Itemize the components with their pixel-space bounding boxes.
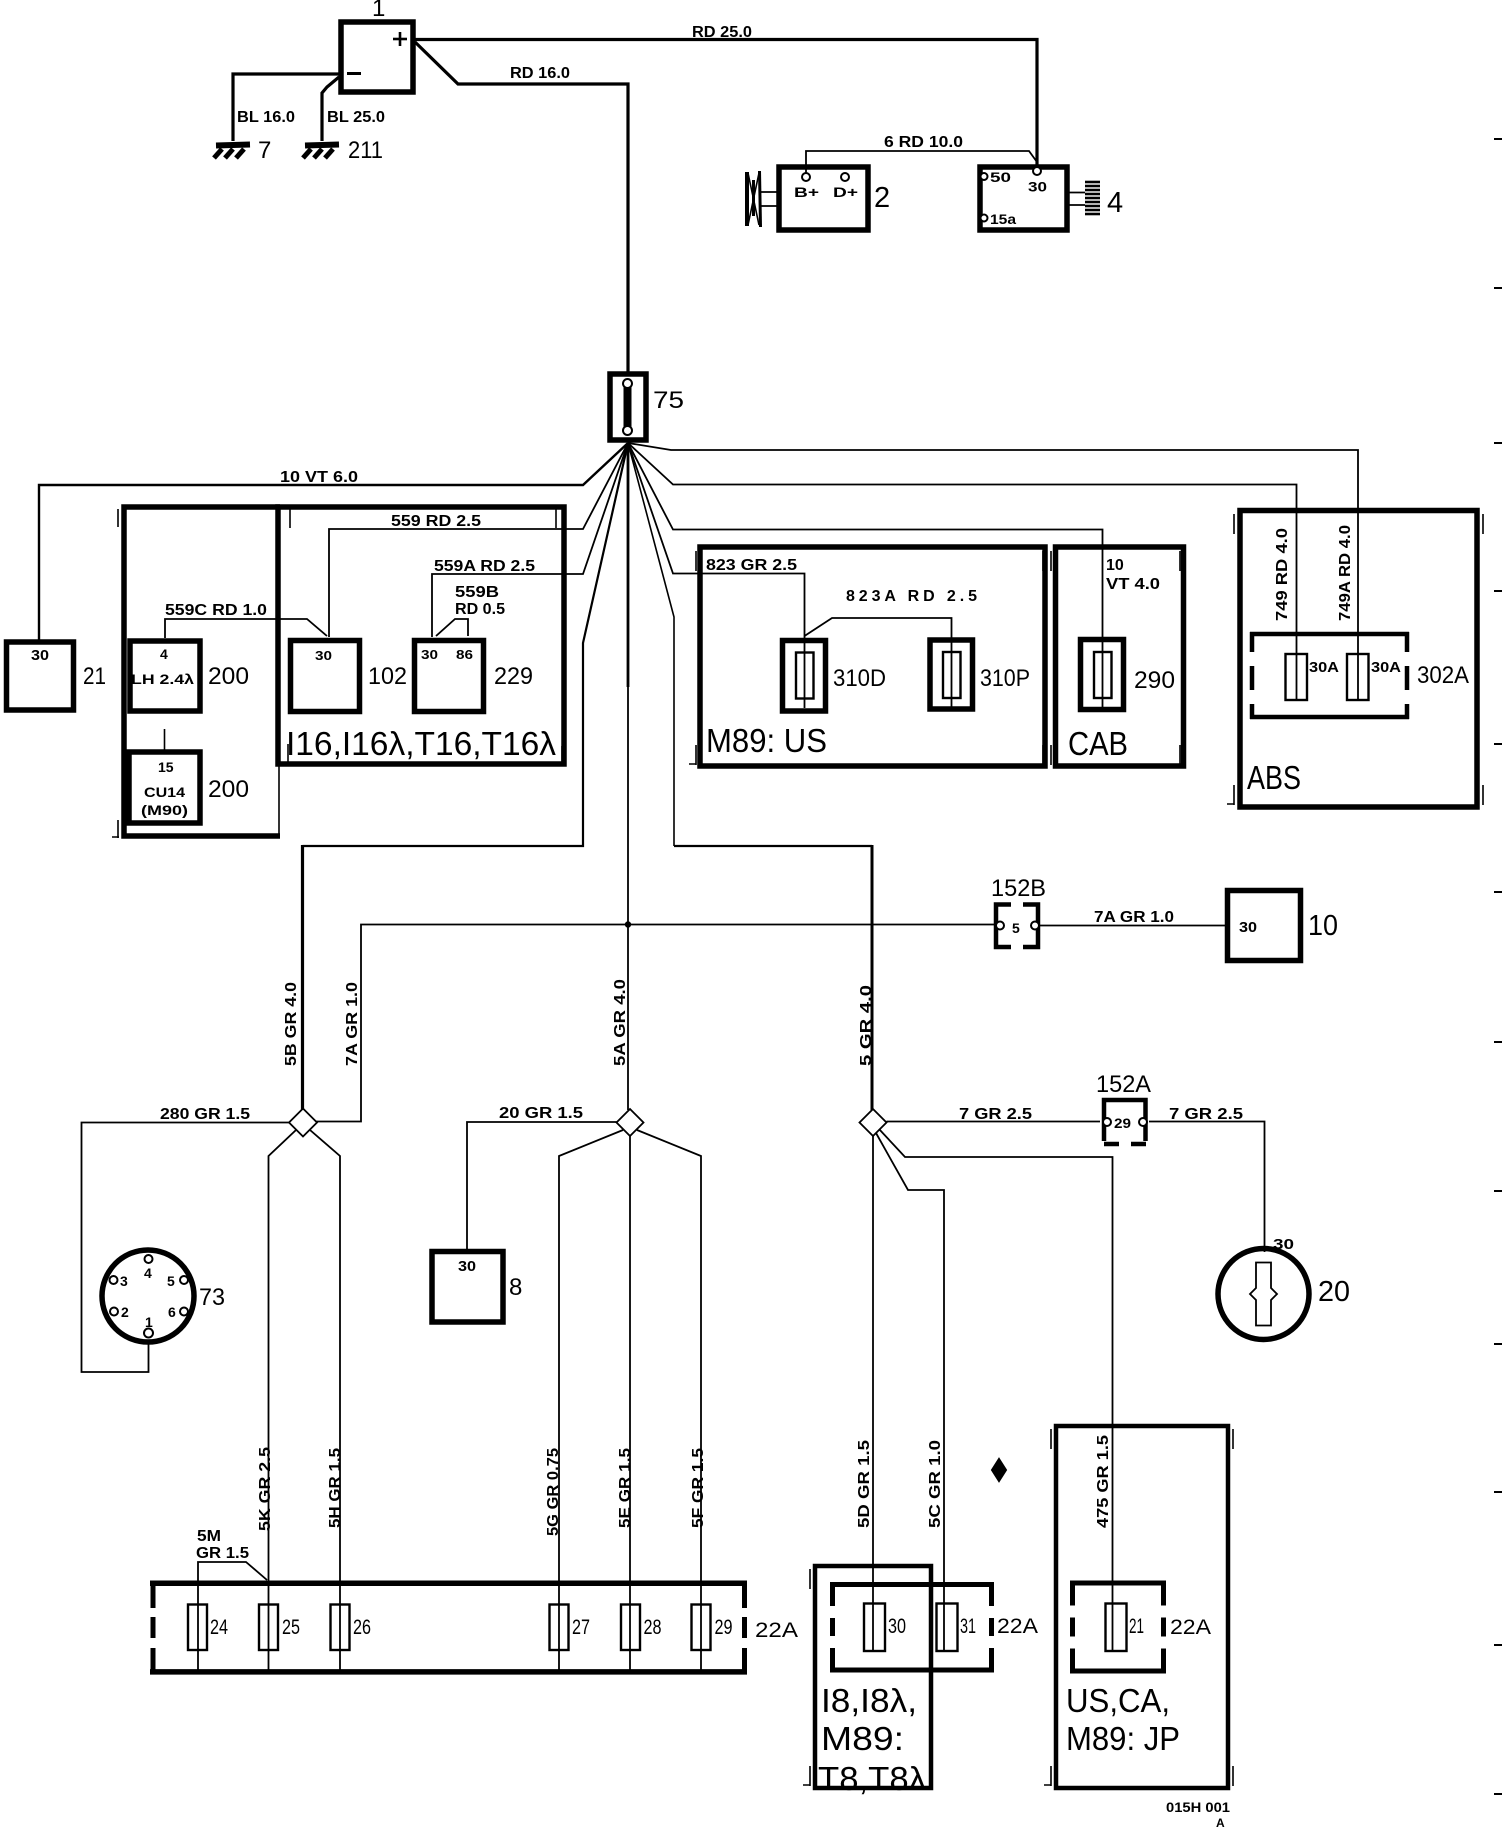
- svg-text:559 RD 2.5: 559 RD 2.5: [391, 513, 481, 530]
- relay 10: [1228, 891, 1339, 961]
- svg-text:10 VT 6.0: 10 VT 6.0: [280, 469, 358, 486]
- svg-text:30: 30: [458, 1258, 476, 1275]
- svg-text:6 RD 10.0: 6 RD 10.0: [884, 134, 963, 151]
- svg-text:M89: US: M89: US: [706, 722, 827, 759]
- wire BL 25.0: [322, 77, 385, 141]
- wire 559 RD 2.5: [329, 443, 628, 637]
- svg-text:28: 28: [644, 1616, 662, 1639]
- fuse 290: [1081, 640, 1176, 710]
- junction diamond left: [289, 1109, 317, 1137]
- ignition switch 4: [980, 167, 1123, 230]
- svg-text:211: 211: [348, 137, 383, 164]
- svg-text:4: 4: [144, 1265, 152, 1281]
- svg-text:B+: B+: [794, 184, 819, 200]
- fuse 27: [550, 1605, 591, 1651]
- svg-text:5E GR 1.5: 5E GR 1.5: [617, 1448, 634, 1528]
- svg-text:200: 200: [208, 663, 249, 690]
- wire 7 GR 2.5 right: [1149, 1106, 1294, 1253]
- box I16,I16x,T16,T16x: [278, 507, 564, 764]
- wire 20 GR 1.5: [467, 1105, 617, 1249]
- wire 823 GR 2.5: [628, 443, 805, 708]
- svg-text:D+: D+: [833, 184, 858, 200]
- svg-text:5F GR 1.5: 5F GR 1.5: [690, 1448, 707, 1528]
- control unit LH 2.4 (200): [130, 641, 249, 711]
- svg-text:310D: 310D: [833, 665, 886, 692]
- marker dot: [992, 1459, 1006, 1481]
- ground 7: [214, 137, 271, 164]
- svg-text:015H 001: 015H 001: [1166, 1799, 1230, 1815]
- fuse 25: [259, 1605, 300, 1651]
- svg-text:29: 29: [715, 1616, 733, 1639]
- wire RD 16.0: [415, 42, 628, 372]
- svg-text:823 GR 2.5: 823 GR 2.5: [706, 557, 797, 574]
- wire 5C GR 1.0: [876, 1133, 944, 1651]
- battery 1: [341, 0, 413, 92]
- fuse 30A right: [1347, 654, 1401, 700]
- svg-text:30: 30: [421, 647, 438, 662]
- svg-text:310P: 310P: [980, 665, 1030, 692]
- svg-text:US,CA,: US,CA,: [1066, 1682, 1170, 1719]
- svg-text:5B GR 4.0: 5B GR 4.0: [283, 982, 300, 1066]
- svg-text:749A RD 4.0: 749A RD 4.0: [1337, 525, 1354, 621]
- svg-text:20: 20: [1318, 1276, 1350, 1308]
- connector 152B: [991, 875, 1046, 947]
- svg-text:50: 50: [990, 169, 1011, 185]
- svg-text:5H GR 1.5: 5H GR 1.5: [327, 1448, 344, 1528]
- box US CA M89 JP: [1044, 1426, 1233, 1788]
- wire 559C RD 1.0: [165, 602, 327, 638]
- fuse box 22A (US): [1070, 1581, 1211, 1674]
- ignition lock 20: [1218, 1249, 1350, 1340]
- svg-text:5G GR 0.75: 5G GR 0.75: [545, 1448, 562, 1536]
- svg-text:24: 24: [210, 1616, 228, 1639]
- wire 10 VT 4.0: [628, 443, 1160, 708]
- wire 5F GR 1.5: [637, 1130, 707, 1671]
- svg-text:7 GR 2.5: 7 GR 2.5: [1169, 1106, 1243, 1123]
- svg-text:2: 2: [874, 182, 890, 214]
- connector 152A: [1096, 1071, 1151, 1144]
- wire 475 GR 1.5: [879, 1129, 1113, 1651]
- svg-text:I16,I16λ,T16,T16λ: I16,I16λ,T16,T16λ: [286, 725, 557, 762]
- svg-text:20 GR 1.5: 20 GR 1.5: [499, 1105, 583, 1122]
- svg-text:152B: 152B: [991, 875, 1046, 902]
- wire 10 VT 6.0: [39, 443, 628, 640]
- svg-text:152A: 152A: [1096, 1071, 1151, 1098]
- wire 5H GR 1.5: [310, 1130, 344, 1671]
- relay 8: [432, 1252, 522, 1323]
- junction diamond center: [617, 1109, 644, 1136]
- fuse 24: [188, 1605, 228, 1651]
- svg-text:7A GR 1.0: 7A GR 1.0: [344, 982, 361, 1066]
- svg-text:5: 5: [167, 1273, 175, 1289]
- wire 5 GR 4.0: [628, 443, 875, 1110]
- page edge ticks: [1494, 139, 1502, 1794]
- svg-text:5M: 5M: [197, 1528, 221, 1545]
- svg-text:26: 26: [353, 1616, 371, 1639]
- svg-text:30: 30: [315, 648, 332, 663]
- svg-text:559C RD 1.0: 559C RD 1.0: [165, 602, 267, 619]
- svg-text:290: 290: [1134, 667, 1175, 694]
- svg-text:30: 30: [31, 647, 49, 664]
- fuse 30 (I8): [864, 1604, 906, 1652]
- svg-text:8: 8: [509, 1274, 522, 1301]
- wire 280 GR 1.5: [82, 1106, 290, 1372]
- svg-text:3: 3: [120, 1273, 128, 1289]
- fuse box 22A main: [150, 1581, 798, 1674]
- box ABS: [1227, 511, 1483, 808]
- junction diamond right: [860, 1109, 887, 1136]
- svg-text:2: 2: [121, 1304, 129, 1320]
- svg-text:31: 31: [960, 1615, 976, 1638]
- svg-text:T8,T8λ: T8,T8λ: [818, 1760, 927, 1797]
- svg-text:5K GR 2.5: 5K GR 2.5: [257, 1447, 274, 1531]
- svg-text:7A GR 1.0: 7A GR 1.0: [1094, 909, 1174, 926]
- svg-text:5: 5: [1012, 920, 1020, 936]
- svg-text:A: A: [1216, 1816, 1225, 1830]
- relay 229: [415, 641, 534, 712]
- svg-text:CU14: CU14: [144, 784, 185, 800]
- svg-text:BL 25.0: BL 25.0: [327, 109, 385, 126]
- wire 5G GR 0.75: [545, 1130, 623, 1671]
- wire 749 RD 4.0: [628, 443, 1297, 700]
- svg-text:30: 30: [1028, 179, 1047, 195]
- fuse 26: [331, 1605, 372, 1651]
- svg-text:22A: 22A: [1170, 1616, 1211, 1639]
- svg-text:ABS: ABS: [1247, 759, 1301, 796]
- svg-text:75: 75: [653, 387, 684, 414]
- svg-text:22A: 22A: [755, 1619, 798, 1642]
- svg-text:15: 15: [158, 759, 174, 775]
- svg-text:559B: 559B: [455, 584, 499, 601]
- svg-text:5C GR 1.0: 5C GR 1.0: [927, 1440, 944, 1528]
- link wire: [164, 729, 166, 750]
- svg-text:27: 27: [572, 1616, 590, 1639]
- wire 5K GR 2.5: [257, 1130, 296, 1671]
- svg-text:749 RD 4.0: 749 RD 4.0: [1274, 528, 1291, 621]
- svg-text:200: 200: [208, 776, 249, 803]
- left module box 200: [112, 507, 280, 838]
- svg-text:RD 0.5: RD 0.5: [455, 601, 505, 618]
- sensor 73: [102, 1250, 225, 1342]
- svg-text:10: 10: [1308, 910, 1338, 942]
- svg-text:29: 29: [1114, 1115, 1131, 1131]
- svg-text:4: 4: [160, 646, 168, 662]
- svg-text:280 GR 1.5: 280 GR 1.5: [160, 1106, 250, 1123]
- svg-text:5D GR 1.5: 5D GR 1.5: [856, 1440, 873, 1528]
- wire 6 RD 10.0: [806, 134, 1037, 173]
- plate code: [1166, 1799, 1230, 1830]
- fuse 310P: [930, 640, 1030, 709]
- svg-text:10: 10: [1106, 557, 1124, 574]
- svg-text:4: 4: [1107, 187, 1123, 219]
- svg-text:CAB: CAB: [1068, 725, 1128, 762]
- svg-text:(M90): (M90): [141, 802, 188, 818]
- svg-text:30: 30: [888, 1615, 906, 1638]
- svg-text:229: 229: [494, 663, 533, 690]
- svg-text:21: 21: [1129, 1615, 1144, 1638]
- wire 823A RD 2.5: [805, 588, 978, 708]
- alternator 2: [747, 167, 890, 230]
- control unit CU14 M90 (200): [129, 752, 249, 823]
- fuse 30A left: [1286, 654, 1340, 700]
- svg-text:M89: JP: M89: JP: [1066, 1720, 1180, 1757]
- svg-text:VT 4.0: VT 4.0: [1106, 576, 1160, 593]
- svg-text:M89:: M89:: [821, 1720, 904, 1757]
- wire 7A GR 1.0: [1040, 909, 1227, 926]
- svg-text:102: 102: [368, 663, 407, 690]
- box I8 I8x M89 T8 T8x: [803, 1566, 931, 1797]
- wire 5B GR 4.0: [283, 443, 628, 1110]
- fuse box 22A (I8): [830, 1582, 1038, 1672]
- wire 749A RD 4.0: [628, 443, 1358, 700]
- fuse 28: [621, 1605, 662, 1651]
- wire 5A GR 4.0: [612, 443, 631, 1110]
- svg-text:86: 86: [456, 647, 473, 662]
- wire 559B RD 0.5: [436, 584, 505, 636]
- svg-text:25: 25: [282, 1616, 300, 1639]
- svg-text:30A: 30A: [1309, 659, 1339, 676]
- svg-text:475 GR 1.5: 475 GR 1.5: [1095, 1435, 1112, 1528]
- svg-text:5 GR 4.0: 5 GR 4.0: [858, 985, 875, 1066]
- fuse holder 302A: [1250, 632, 1469, 719]
- svg-text:30: 30: [1239, 919, 1257, 936]
- fuse 29: [692, 1605, 733, 1651]
- wire 559A RD 2.5: [432, 443, 628, 637]
- wire 7 GR 2.5 left: [887, 1106, 1101, 1123]
- svg-text:7 GR 2.5: 7 GR 2.5: [959, 1106, 1032, 1123]
- svg-text:1: 1: [145, 1314, 153, 1330]
- svg-text:LH 2.4λ: LH 2.4λ: [131, 671, 194, 687]
- fuse 31 (I8): [937, 1604, 977, 1652]
- svg-text:21: 21: [83, 663, 106, 690]
- connector 75: [610, 374, 684, 440]
- svg-text:5A GR 4.0: 5A GR 4.0: [612, 979, 629, 1066]
- wire 5M GR 1.5: [196, 1528, 267, 1670]
- svg-text:73: 73: [199, 1284, 225, 1311]
- wire 5D GR 1.5: [856, 1136, 873, 1651]
- svg-text:BL 16.0: BL 16.0: [237, 109, 295, 126]
- svg-text:1: 1: [372, 0, 385, 22]
- svg-text:RD 16.0: RD 16.0: [510, 65, 570, 82]
- ground 211: [303, 137, 383, 164]
- svg-text:30A: 30A: [1371, 659, 1401, 676]
- fuse 310D: [783, 641, 887, 712]
- svg-text:RD 25.0: RD 25.0: [692, 24, 752, 41]
- box M89:US: [689, 547, 1045, 766]
- svg-text:302A: 302A: [1417, 662, 1469, 689]
- box CAB: [1051, 547, 1184, 766]
- wire RD 25.0: [415, 24, 1037, 167]
- wire 5E GR 1.5: [617, 1136, 634, 1671]
- relay 102: [291, 641, 408, 712]
- wire BL 16.0: [233, 74, 339, 141]
- svg-text:15a: 15a: [990, 211, 1016, 227]
- svg-text:22A: 22A: [997, 1615, 1038, 1638]
- wire 7A GR 1.0 branch: [316, 925, 995, 1122]
- svg-text:6: 6: [168, 1304, 176, 1320]
- svg-text:559A RD 2.5: 559A RD 2.5: [434, 558, 535, 575]
- fuse 21 (US): [1106, 1604, 1145, 1652]
- svg-text:7: 7: [258, 137, 271, 164]
- svg-text:GR 1.5: GR 1.5: [196, 1545, 249, 1562]
- junction box 21: [7, 642, 107, 710]
- svg-text:I8,I8λ,: I8,I8λ,: [821, 1682, 917, 1719]
